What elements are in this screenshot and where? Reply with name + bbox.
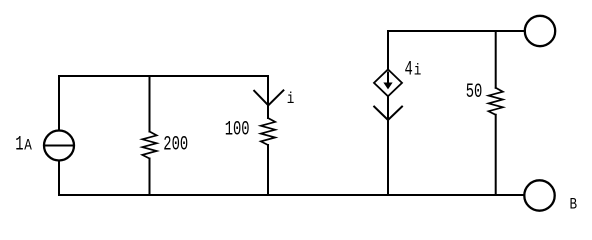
svg-text:200: 200 (163, 134, 188, 157)
resistor 200 (142, 132, 156, 159)
svg-text:4: 4 (405, 59, 413, 82)
resistor 50 (489, 88, 503, 115)
current source I1 (1A) (44, 131, 74, 161)
wire current source top lead (58, 76, 60, 131)
current arrow i (254, 90, 283, 105)
svg-text:i: i (414, 62, 422, 80)
svg-text:A: A (24, 137, 32, 155)
svg-text:100: 100 (225, 119, 250, 142)
current direction chevron for 4i (374, 107, 402, 120)
wire dependent source bottom lead (387, 97, 389, 195)
svg-text:50: 50 (466, 81, 483, 104)
svg-text:1: 1 (15, 134, 23, 157)
svg-text:B: B (570, 195, 578, 213)
wire 50-ohm bottom lead (495, 115, 497, 195)
wire 200-ohm top lead (149, 76, 151, 132)
terminal B (bottom right) (524, 180, 554, 210)
dependent current source 4i (diamond) (374, 69, 402, 96)
terminal A (top right) (525, 16, 555, 46)
wire 100-ohm bottom lead (267, 145, 269, 195)
wire 200-ohm bottom lead (149, 159, 151, 196)
wire current source bottom lead (58, 161, 60, 196)
wire top-right rail (388, 30, 525, 32)
wire 100-ohm top lead (267, 76, 269, 118)
svg-text:i: i (287, 90, 295, 108)
wire bottom rail (59, 194, 524, 196)
resistor 100 (261, 118, 275, 145)
wire top-left rail (59, 75, 268, 77)
wire 50-ohm top lead (495, 31, 497, 88)
wire dependent source top lead (387, 31, 389, 69)
